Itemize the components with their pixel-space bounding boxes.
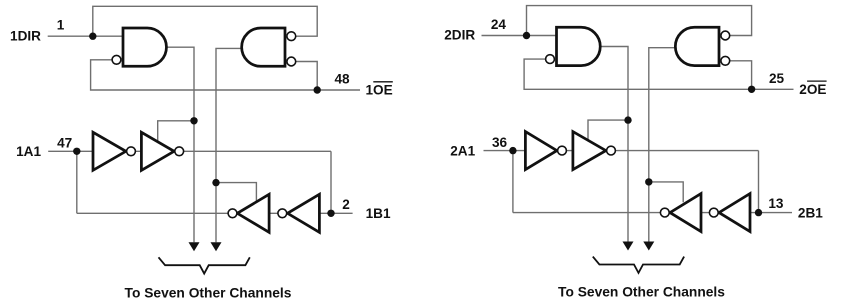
tristate buffer U12 (A to B) bbox=[141, 132, 183, 170]
svg-text:2: 2 bbox=[342, 197, 350, 212]
junction 1OE bbox=[314, 86, 321, 93]
pin number 25 bbox=[769, 71, 785, 86]
wire 1OE pin stub bbox=[317, 89, 360, 91]
junction 2B1 bbox=[755, 209, 762, 216]
arrow to other channels (right) bbox=[211, 242, 222, 251]
wire B-to-A feedback vertical bbox=[76, 151, 78, 213]
caption: To Seven Other Channels bbox=[558, 285, 725, 300]
svg-text:1OE: 1OE bbox=[366, 83, 393, 98]
wire 2A1 row bbox=[484, 150, 759, 152]
wire 2DIR top rail to gate G2B input bbox=[527, 6, 752, 36]
svg-text:47: 47 bbox=[57, 136, 72, 151]
wire 1B1 row bbox=[77, 212, 353, 214]
label 2DIR bbox=[444, 28, 475, 43]
junction A-enable bbox=[624, 116, 631, 123]
wire B-to-A feedback vertical bbox=[512, 151, 514, 213]
wire gate G2A output down bbox=[600, 47, 628, 242]
pin number 2 bbox=[342, 197, 350, 212]
svg-text:48: 48 bbox=[334, 72, 350, 87]
label 1A1 bbox=[16, 144, 41, 159]
caption: To Seven Other Channels bbox=[125, 285, 292, 300]
brace to seven other channels bbox=[159, 257, 250, 273]
wire 2OE to gate G2B bubble bbox=[730, 61, 752, 90]
arrow to other channels (right) bbox=[643, 242, 654, 251]
svg-text:24: 24 bbox=[491, 17, 507, 32]
inverter U21 (2A1 input) bbox=[525, 132, 566, 170]
tristate buffer U22 (A to B) bbox=[573, 132, 615, 170]
junction 1B1 bbox=[327, 210, 334, 217]
junction 2A1 bbox=[509, 147, 516, 154]
wire 2OE rail to gate G2A bubble bbox=[524, 59, 752, 89]
and-gate G2B (B-direction enable, mirrored) bbox=[675, 27, 729, 65]
svg-text:1: 1 bbox=[57, 18, 65, 33]
and-gate G1A (A-direction enable) bbox=[112, 28, 166, 66]
svg-text:25: 25 bbox=[769, 71, 785, 86]
svg-text:1DIR: 1DIR bbox=[10, 28, 41, 43]
pin number 48 bbox=[334, 72, 350, 87]
label 1DIR bbox=[10, 28, 41, 43]
inverter U24 (2B1 input) bbox=[709, 194, 750, 232]
wire 1OE rail to gate G1A bubble bbox=[91, 60, 318, 90]
junction B-enable bbox=[645, 178, 652, 185]
svg-text:2A1: 2A1 bbox=[450, 143, 475, 158]
svg-text:2DIR: 2DIR bbox=[444, 28, 475, 43]
brace to seven other channels bbox=[593, 257, 684, 273]
svg-text:2OE: 2OE bbox=[799, 82, 826, 97]
pin number 36 bbox=[492, 135, 508, 150]
wire 1OE to gate G1B bubble bbox=[296, 62, 318, 91]
and-gate G1B (B-direction enable, mirrored) bbox=[242, 28, 296, 66]
label 1OE (active low) bbox=[366, 82, 393, 98]
pin number 13 bbox=[768, 196, 784, 211]
wire gate G2B output down bbox=[649, 48, 676, 242]
wire 2DIR input bbox=[482, 35, 557, 37]
wire 2B1 row bbox=[513, 212, 792, 214]
pin number 1 bbox=[57, 18, 65, 33]
and-gate G2A (A-direction enable) bbox=[546, 27, 601, 65]
wire 1DIR input bbox=[48, 35, 123, 37]
wire gate G1A output down bbox=[167, 47, 195, 242]
svg-text:2B1: 2B1 bbox=[798, 205, 823, 220]
inverter U14 (1B1 input) bbox=[278, 194, 320, 232]
svg-text:13: 13 bbox=[768, 196, 784, 211]
label 2OE (active low) bbox=[799, 81, 826, 97]
wire enable of B-buffer U13 bbox=[216, 183, 256, 203]
arrow to other channels (left) bbox=[189, 242, 200, 251]
wire enable of A-buffer U22 bbox=[588, 120, 628, 141]
svg-text:1A1: 1A1 bbox=[16, 144, 41, 159]
label 2A1 bbox=[450, 143, 475, 158]
svg-text:To Seven Other Channels: To Seven Other Channels bbox=[558, 285, 725, 300]
label 1B1 bbox=[366, 206, 391, 221]
wire enable of A-buffer U12 bbox=[158, 121, 194, 142]
junction B-enable bbox=[212, 179, 219, 186]
wire A-to-B vertical bbox=[330, 151, 332, 213]
wire enable of B-buffer U23 bbox=[649, 182, 683, 202]
pin number 47 bbox=[57, 136, 72, 151]
junction A-enable bbox=[190, 117, 197, 124]
junction 1DIR bbox=[89, 33, 96, 40]
junction 2OE bbox=[748, 86, 755, 93]
svg-text:1B1: 1B1 bbox=[366, 206, 391, 221]
junction 2DIR bbox=[523, 32, 530, 39]
wire 1DIR top rail to gate G1B input bbox=[93, 6, 317, 36]
wire 1A1 row bbox=[48, 150, 331, 152]
wire 2OE pin stub bbox=[752, 88, 794, 90]
wire gate G1B output down bbox=[216, 48, 242, 242]
svg-text:To Seven Other Channels: To Seven Other Channels bbox=[125, 285, 292, 300]
junction 1A1 bbox=[73, 148, 80, 155]
wire A-to-B vertical bbox=[758, 151, 760, 213]
svg-text:36: 36 bbox=[492, 135, 508, 150]
label 2B1 bbox=[798, 205, 823, 220]
arrow to other channels (left) bbox=[623, 242, 634, 251]
pin number 24 bbox=[491, 17, 507, 32]
tristate buffer U13 (B to A) bbox=[228, 194, 269, 232]
inverter U11 (1A1 input) bbox=[93, 132, 135, 170]
tristate buffer U23 (B to A) bbox=[660, 194, 701, 232]
